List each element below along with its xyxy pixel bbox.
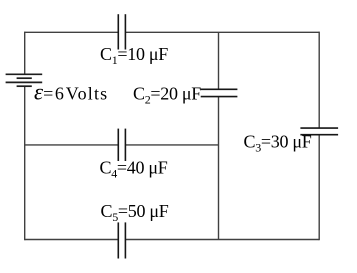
wire left upper (left wire, top corner to battery) — [24, 32, 26, 75]
svg-text:C3=30 μF: C3=30 μF — [244, 132, 312, 155]
wire middle vertical lower (C2 to bottom wire) — [218, 97, 220, 240]
wire middle vertical upper (node top wire to C2) — [218, 32, 220, 89]
wire right upper (right wire, top corner to C3) — [318, 32, 320, 129]
svg-text:ε=: ε= — [34, 80, 53, 105]
wire middle horizontal left (left wire to C4) — [25, 144, 119, 146]
wire left lower (battery to bottom-left corner) — [24, 86, 26, 240]
svg-text:C1=10 μF: C1=10 μF — [100, 44, 168, 67]
svg-text:6: 6 — [55, 84, 64, 104]
capacitor C3 (30 uF, right wire) — [300, 128, 338, 135]
svg-text:C4=40 μF: C4=40 μF — [100, 158, 168, 181]
svg-text:Volts: Volts — [66, 84, 109, 104]
wire top-left segment (top wire, left of C1) — [25, 31, 119, 33]
wire bottom-left segment (bottom wire, left of C5) — [25, 239, 119, 241]
wire middle horizontal right (C4 to middle vertical wire) — [125, 144, 218, 146]
svg-text:C2=20 μF: C2=20 μF — [133, 84, 201, 107]
wire right lower (C3 to bottom-right corner) — [318, 135, 320, 241]
capacitor C4 (40 uF, middle horizontal wire) — [118, 129, 125, 161]
wire top-right segment (top wire, right of C1) — [125, 31, 319, 33]
wire bottom-right segment (bottom wire, right of C5) — [125, 239, 319, 241]
capacitor C1 (10 uF, top wire) — [118, 14, 125, 49]
battery E (EMF source, 6 Volts) — [6, 74, 43, 86]
capacitor C2 (20 uF, middle vertical wire) — [201, 89, 238, 96]
capacitor C5 (50 uF, bottom wire) — [118, 222, 125, 258]
svg-text:C5=50 μF: C5=50 μF — [101, 201, 169, 224]
